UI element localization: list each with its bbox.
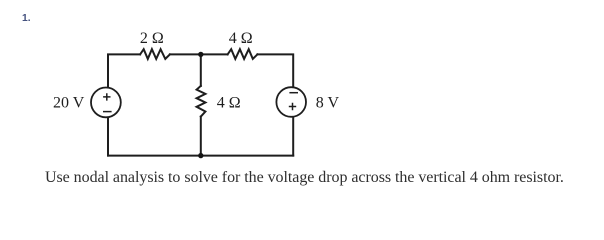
node A junction dot (top) — [198, 52, 203, 57]
svg-text:20 V: 20 V — [53, 94, 85, 111]
resistor R2 4 ohm (top) zigzag — [228, 49, 258, 59]
resistor R3 4 ohm (vertical) zigzag — [197, 86, 206, 117]
caption text — [45, 169, 564, 187]
wire bottom rail — [108, 155, 293, 157]
wire left-lower (V1 bottom to bottom rail) — [107, 118, 109, 156]
node B junction dot (bottom) — [198, 153, 203, 158]
problem number 1. — [22, 13, 31, 24]
voltage source V1 20 V circle — [91, 88, 121, 118]
wire top-middle (R1 right to R2 left through node A) — [170, 53, 228, 55]
wire right-lower (V2 bottom to bottom rail) — [292, 117, 294, 156]
wire top-right (R2 right to V2 top) — [257, 54, 293, 87]
V2 plus sign — [289, 103, 296, 110]
resistor R1 2 ohm zigzag — [140, 49, 170, 59]
V1 plus sign — [103, 93, 110, 100]
svg-text:8 V: 8 V — [316, 94, 340, 111]
svg-text:4 Ω: 4 Ω — [229, 30, 253, 47]
wire middle-upper (node A to R3 top) — [200, 54, 202, 86]
voltage source V2 8 V circle — [276, 87, 306, 117]
svg-text:2 Ω: 2 Ω — [140, 30, 164, 47]
wire middle-lower (R3 bottom to node B) — [200, 117, 202, 156]
svg-text:4 Ω: 4 Ω — [217, 94, 241, 111]
wire top-left (V1 top to R1 left) — [108, 54, 140, 87]
V1 minus sign — [103, 111, 112, 113]
V2 minus sign — [289, 92, 298, 94]
